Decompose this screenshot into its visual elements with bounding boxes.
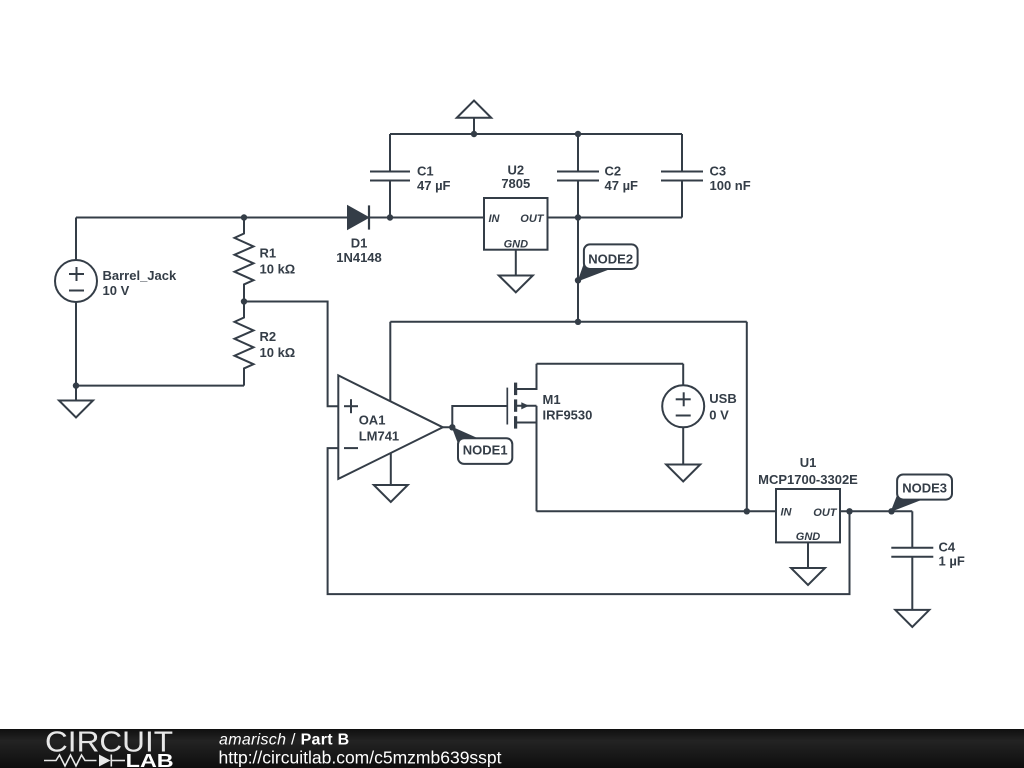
wire M1 source to U1 IN bbox=[537, 510, 777, 512]
wire op-amp VS+ stub bbox=[389, 322, 391, 401]
wire barrel jack to diode bbox=[76, 217, 348, 219]
ground below Barrel_Jack bbox=[59, 386, 93, 418]
svg-text:IN: IN bbox=[781, 506, 793, 518]
junction dot jack bottom bbox=[73, 382, 79, 388]
junction dot VCC on rail bbox=[471, 131, 477, 137]
resistor R1 bbox=[235, 218, 254, 302]
IC U1 MCP1700 bbox=[776, 489, 840, 542]
svg-text:10 kΩ: 10 kΩ bbox=[260, 345, 296, 360]
svg-text:C2: C2 bbox=[605, 164, 622, 179]
svg-text:MCP1700-3302E: MCP1700-3302E bbox=[758, 472, 858, 487]
svg-text:IN: IN bbox=[489, 213, 501, 225]
svg-text:amarisch / Part B: amarisch / Part B bbox=[219, 732, 350, 749]
svg-text:7805: 7805 bbox=[501, 176, 530, 191]
svg-text:LM741: LM741 bbox=[359, 429, 399, 444]
svg-text:M1: M1 bbox=[543, 392, 561, 407]
svg-text:47 µF: 47 µF bbox=[605, 178, 639, 193]
svg-text:10 kΩ: 10 kΩ bbox=[260, 262, 296, 277]
junction dot OUT-C2 bbox=[575, 214, 581, 220]
svg-text:R2: R2 bbox=[260, 329, 277, 344]
wire mid rail bbox=[390, 321, 747, 323]
svg-text:10 V: 10 V bbox=[103, 283, 130, 298]
junction dot U1 OUT bbox=[846, 508, 852, 514]
label R1 value bbox=[260, 246, 296, 277]
svg-text:NODE2: NODE2 bbox=[588, 251, 633, 266]
junction dot divider tap bbox=[241, 298, 247, 304]
voltage source Barrel_Jack bbox=[55, 218, 97, 386]
svg-text:Barrel_Jack: Barrel_Jack bbox=[103, 268, 177, 283]
pin label U2 OUT bbox=[520, 213, 545, 225]
capacitor C3 bbox=[661, 134, 703, 218]
op-amp OA1 bbox=[338, 375, 443, 479]
junction dot rail-C2 bbox=[575, 131, 581, 137]
pin label U2 IN bbox=[489, 213, 501, 225]
wire U1 OUT to C4 bbox=[840, 510, 912, 512]
wire bottom jack to R2 bbox=[76, 385, 244, 387]
node flag NODE2 bbox=[575, 244, 638, 283]
svg-text:1 µF: 1 µF bbox=[939, 554, 965, 569]
footer title amarisch / Part B bbox=[219, 732, 350, 749]
pin label U2 GND bbox=[504, 239, 529, 251]
svg-text:0 V: 0 V bbox=[709, 408, 729, 423]
label Barrel_Jack value bbox=[103, 268, 177, 298]
svg-text:NODE3: NODE3 bbox=[902, 480, 947, 495]
node flag NODE3 bbox=[888, 475, 952, 515]
IC U2 7805 bbox=[484, 198, 548, 250]
svg-text:U1: U1 bbox=[800, 455, 817, 470]
label C4 value bbox=[939, 540, 965, 569]
label OA1 name bbox=[359, 413, 399, 444]
pin label U1 OUT bbox=[813, 507, 838, 519]
label NODE2 bbox=[588, 251, 633, 266]
svg-text:1N4148: 1N4148 bbox=[336, 250, 382, 265]
logo resistor-diode doodle bbox=[44, 755, 125, 767]
footer bar bbox=[0, 729, 1024, 768]
svg-text:C4: C4 bbox=[939, 540, 956, 555]
logo CIRCUIT text bbox=[45, 726, 173, 758]
wire D1 to U2 IN bbox=[390, 217, 484, 219]
svg-text:USB: USB bbox=[709, 391, 736, 406]
transistor M1 IRF9530 bbox=[507, 364, 536, 512]
svg-text:OUT: OUT bbox=[520, 213, 545, 225]
svg-text:D1: D1 bbox=[351, 236, 368, 251]
footer url bbox=[219, 747, 502, 767]
wire NODE2 vertical bbox=[577, 218, 579, 322]
wire U2 OUT to C3 bbox=[548, 217, 683, 219]
capacitor C1 bbox=[370, 134, 410, 218]
wire feedback OUT to op-amp inverting input bbox=[328, 448, 850, 594]
svg-text:R1: R1 bbox=[260, 246, 277, 261]
diode D1 bbox=[348, 205, 390, 229]
svg-text:GND: GND bbox=[504, 239, 529, 251]
node flag NODE1 bbox=[449, 424, 512, 464]
power flag VCC arrow bbox=[457, 101, 491, 134]
wire top rail VCC bbox=[390, 133, 682, 135]
pin label U1 IN bbox=[781, 506, 793, 518]
junction dot C1 bottom bbox=[387, 214, 393, 220]
resistor R2 bbox=[235, 302, 254, 386]
pin label U1 GND bbox=[796, 531, 821, 543]
svg-text:C3: C3 bbox=[710, 164, 727, 179]
wire divider tap to op-amp + input bbox=[244, 302, 338, 407]
wire right branch to U1 IN bbox=[746, 322, 748, 512]
svg-text:47 µF: 47 µF bbox=[417, 178, 451, 193]
wire M1 drain rail bbox=[537, 363, 684, 365]
svg-text:C1: C1 bbox=[417, 164, 434, 179]
label R2 value bbox=[260, 329, 296, 360]
capacitor C4 bbox=[891, 511, 933, 610]
ground below C4 bbox=[895, 610, 929, 627]
svg-text:OA1: OA1 bbox=[359, 413, 386, 428]
label U2 name bbox=[501, 163, 530, 192]
logo LAB text bbox=[126, 751, 174, 768]
label D1 value bbox=[336, 236, 382, 266]
label USB value bbox=[709, 391, 736, 423]
label U1 name bbox=[758, 455, 858, 487]
ground below U2 bbox=[499, 250, 533, 293]
svg-text:NODE1: NODE1 bbox=[463, 443, 508, 458]
ground below USB bbox=[666, 465, 700, 482]
ground below U1 bbox=[791, 542, 825, 585]
svg-text:LAB: LAB bbox=[126, 751, 174, 768]
label C2 value bbox=[605, 164, 639, 194]
label C3 value bbox=[710, 164, 751, 194]
label M1 name bbox=[543, 392, 593, 423]
wire op-amp output to gate bbox=[443, 406, 508, 427]
wire op-amp VS- stub bbox=[390, 453, 392, 485]
voltage source USB bbox=[662, 364, 704, 465]
junction dot right branch on IN wire bbox=[744, 508, 750, 514]
svg-text:IRF9530: IRF9530 bbox=[543, 408, 593, 423]
label NODE3 bbox=[902, 480, 947, 495]
ground below OA1 bbox=[374, 485, 408, 502]
svg-text:OUT: OUT bbox=[813, 507, 838, 519]
capacitor C2 bbox=[557, 134, 599, 218]
svg-text:100 nF: 100 nF bbox=[710, 178, 751, 193]
label NODE1 bbox=[463, 443, 508, 458]
junction dot mid rail bbox=[575, 319, 581, 325]
svg-text:http://circuitlab.com/c5mzmb63: http://circuitlab.com/c5mzmb639sspt bbox=[219, 747, 502, 767]
svg-text:GND: GND bbox=[796, 531, 821, 543]
junction dot R1 top bbox=[241, 214, 247, 220]
label C1 value bbox=[417, 164, 451, 194]
